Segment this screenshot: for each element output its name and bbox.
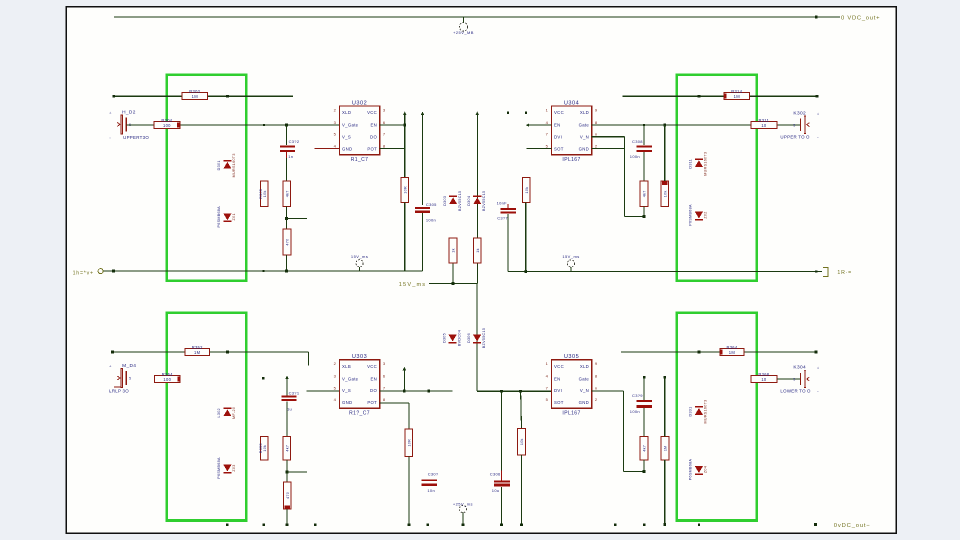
svg-text:MURS160T3: MURS160T3 — [704, 152, 708, 176]
net flag (right rail) — [823, 268, 852, 277]
wire gate to R313 — [664, 125, 666, 181]
wire end dot — [408, 523, 411, 526]
wire U303 DO row — [380, 390, 453, 392]
svg-text:POT: POT — [367, 146, 377, 151]
wire R352 net to corner — [209, 351, 308, 353]
svg-text:DO: DO — [370, 388, 377, 393]
diode D303 zener — [443, 191, 462, 211]
svg-text:4k7: 4k7 — [643, 190, 647, 197]
wire to R307 — [286, 219, 288, 229]
net stub dot bottom rail — [226, 523, 228, 525]
wire R361 to junction — [643, 460, 645, 471]
svg-text:VCC: VCC — [367, 110, 377, 115]
wire U302 POT — [380, 148, 405, 150]
net stub dot — [664, 376, 666, 378]
wire vertical with arrow at C331 column — [285, 376, 289, 380]
svg-text:VCC: VCC — [554, 364, 564, 369]
wire corner down toward U303 — [307, 352, 309, 365]
connector K301 — [110, 109, 150, 140]
svg-text:BZV55C15: BZV55C15 — [458, 191, 462, 211]
svg-text:C30?: C30? — [428, 472, 439, 477]
svg-text:1n: 1n — [288, 154, 293, 159]
capacitor C306 10u — [490, 471, 510, 493]
svg-text:10nF: 10nF — [497, 201, 508, 206]
wire stub right — [287, 471, 307, 473]
resistor R306a 10R — [401, 177, 409, 202]
wire C331 to R357 — [286, 401, 288, 436]
svg-text:MURS160T3: MURS160T3 — [232, 153, 236, 177]
diode D305 zener — [442, 330, 461, 346]
resistor R362 1M — [661, 436, 669, 460]
svg-text:V_Gate: V_Gate — [342, 123, 359, 128]
wire R362 to bottom dot — [664, 460, 666, 524]
diode D301 — [217, 153, 236, 177]
svg-text:100: 100 — [163, 377, 171, 382]
IC U305 driver — [546, 354, 598, 417]
supply symbol +25V_ms bottom — [453, 502, 473, 513]
net stub dot — [643, 376, 645, 378]
svg-text:U303: U303 — [352, 354, 367, 360]
junction dot — [403, 390, 406, 393]
junction dot — [524, 270, 527, 273]
svg-text:10R: 10R — [403, 186, 407, 194]
svg-text:1k: 1k — [476, 248, 480, 253]
net stub dot — [525, 111, 527, 113]
resistor R356 10R — [405, 429, 412, 456]
svg-text:EN: EN — [371, 123, 378, 128]
svg-text:XLD: XLD — [580, 110, 589, 115]
cap C306 top lead — [501, 470, 503, 480]
resistor R313 10k — [661, 181, 669, 206]
wire R368 to K304 — [777, 378, 800, 380]
wire end dot — [816, 95, 819, 98]
svg-text:Gate: Gate — [579, 376, 590, 381]
svg-text:VCC: VCC — [367, 364, 377, 369]
svg-text:SOT: SOT — [554, 400, 564, 405]
svg-text:5: 5 — [129, 377, 131, 381]
junction dot — [226, 351, 229, 354]
wire center column with arrow — [476, 112, 480, 116]
resistor R304 100 — [154, 118, 180, 129]
svg-text:V_S: V_S — [342, 135, 351, 140]
diode D312 — [689, 204, 708, 226]
svg-text:1R·=: 1R·= — [837, 270, 852, 276]
capacitor C312 1n — [280, 139, 300, 159]
resistor R310 10k — [522, 177, 530, 202]
svg-text:10: 10 — [761, 123, 767, 128]
diode D332 — [689, 459, 708, 481]
wire R352 net left segment — [112, 351, 185, 353]
wire C309 to R361 — [643, 408, 645, 437]
junction dot — [643, 470, 646, 473]
wire center column lower — [476, 284, 478, 392]
resistor R358 470 — [283, 482, 291, 509]
wire down to C308 — [643, 125, 645, 145]
net stub dot bottom rail — [614, 523, 616, 525]
capacitor C331 1n — [281, 391, 300, 412]
wire R357 to junction — [286, 460, 288, 472]
svg-text:C3?9: C3?9 — [632, 393, 643, 398]
resistor R355 10k — [259, 436, 268, 460]
net stub dot — [643, 523, 645, 525]
junction on top rail — [815, 16, 818, 19]
svg-text:Z02: Z02 — [704, 211, 708, 218]
net stub dot bottom rail — [427, 523, 429, 525]
svg-text:LOWER TO O: LOWER TO O — [780, 389, 811, 394]
wire end dot — [663, 523, 666, 526]
wire R311 to K302 — [777, 124, 800, 126]
wire R359 to bottom dot — [521, 455, 523, 525]
cap C307 top lead — [507, 204, 509, 208]
svg-text:0vDC_out−: 0vDC_out− — [834, 523, 871, 529]
resistor R357 4k7 — [283, 436, 291, 460]
svg-text:MF-20: MF-20 — [232, 407, 236, 419]
junction dot — [698, 95, 701, 98]
wire U304 V_N — [592, 136, 625, 138]
svg-text:0 VDC_out+: 0 VDC_out+ — [841, 16, 880, 22]
wire K301 to R304 — [127, 124, 155, 126]
svg-text:15V_ms: 15V_ms — [351, 254, 368, 259]
wire down to C309 — [643, 377, 645, 400]
wire U305 V_N — [592, 390, 624, 392]
IC U303 driver — [334, 354, 386, 417]
wire U303 POT — [380, 402, 409, 404]
wire down to C312 — [286, 125, 288, 145]
wire V_N column down — [622, 391, 624, 471]
wire stub to R312 bottom — [624, 216, 644, 218]
svg-text:1M: 1M — [664, 445, 668, 451]
svg-text:10n: 10n — [427, 488, 435, 493]
svg-text:GND: GND — [342, 146, 352, 151]
wire 15V_ms left rail — [103, 270, 423, 272]
junction dot cap branch — [285, 124, 288, 127]
small dot — [263, 270, 265, 272]
svg-text:BZV55C15: BZV55C15 — [482, 328, 486, 348]
wire V_N column down — [623, 137, 625, 217]
diode D302 — [217, 206, 236, 228]
svg-text:+25V_ms: +25V_ms — [453, 502, 473, 507]
capacitor C307 10nF — [497, 201, 516, 221]
svg-text:470: 470 — [286, 239, 290, 246]
connector K302 — [780, 110, 819, 139]
wire R364 net right segment — [744, 351, 816, 353]
wire stub to R361 bottom — [623, 470, 644, 472]
svg-text:n: n — [595, 385, 598, 390]
wire end dot — [113, 95, 115, 97]
highlight rectangle (bottom-right variant area) — [677, 313, 757, 521]
resistor R352 1M — [185, 345, 209, 356]
highlight rectangle (top-left variant area) — [167, 75, 246, 281]
wire U304 SOT — [526, 148, 551, 150]
svg-text:EN: EN — [371, 376, 378, 381]
wire to junction — [286, 206, 288, 218]
IC U304 driver — [546, 100, 598, 163]
wire C312 to R306b — [286, 158, 288, 181]
wire vertical with arrow at R306 column — [403, 112, 407, 116]
svg-text:XLD: XLD — [580, 364, 589, 369]
cap lead — [286, 152, 288, 158]
svg-text:XLD: XLD — [342, 110, 351, 115]
wire C307 to rail — [507, 214, 509, 272]
wire arrow column to C331 — [286, 379, 288, 396]
svg-text:EN: EN — [554, 123, 561, 128]
svg-text:10k: 10k — [525, 187, 529, 194]
wire U304 Gate to R311 — [592, 124, 751, 126]
svg-text:D311: D311 — [689, 159, 693, 169]
svg-text:C305: C305 — [426, 202, 437, 207]
svg-text:L302: L302 — [217, 408, 221, 417]
svg-text:R355: R355 — [259, 443, 263, 453]
svg-text:POT: POT — [367, 400, 377, 405]
svg-text:10: 10 — [761, 377, 767, 382]
diode D322 — [217, 457, 236, 479]
wire stub right — [287, 218, 307, 220]
diode D304 zener — [467, 191, 486, 211]
wire R314 net left segment — [622, 95, 724, 97]
junction dot — [427, 390, 430, 393]
svg-text:4k7: 4k7 — [643, 445, 647, 452]
capacitor C309 100n — [630, 393, 652, 414]
wire 0VDC_out+ top rail — [114, 16, 840, 18]
svg-text:P6SMB68A: P6SMB68A — [689, 459, 693, 481]
svg-text:1k: 1k — [452, 248, 456, 253]
svg-text:D303: D303 — [443, 196, 447, 206]
svg-text:EN: EN — [554, 376, 561, 381]
svg-text:1M: 1M — [192, 94, 199, 99]
wire R356 to bottom dot — [408, 456, 410, 524]
wire into U303 V_S — [307, 390, 340, 392]
net stub dot — [507, 111, 509, 113]
capacitor C305 100n — [415, 202, 437, 222]
svg-text:Gate: Gate — [579, 123, 590, 128]
junction dot — [285, 270, 288, 273]
diode D306 zener — [467, 328, 486, 348]
svg-text:470: 470 — [286, 492, 290, 499]
diode D311 — [689, 152, 708, 176]
svg-text:1M: 1M — [194, 350, 201, 355]
resistor R314 1M — [724, 89, 750, 100]
svg-text:VCC: VCC — [554, 110, 564, 115]
svg-text:GND: GND — [579, 146, 589, 151]
resistor R307 470 — [283, 229, 291, 255]
svg-text:100: 100 — [163, 123, 171, 128]
svg-text:1M: 1M — [734, 94, 741, 99]
wire R358 to bottom dot — [286, 509, 288, 525]
svg-text:GND: GND — [342, 400, 352, 405]
svg-text:U302: U302 — [352, 100, 367, 106]
wire U304 EN with arrow — [526, 123, 530, 127]
svg-text:U305: U305 — [564, 354, 579, 360]
svg-text:GND: GND — [579, 400, 589, 405]
net stub dot — [643, 124, 645, 126]
svg-text:▵: ▵ — [110, 110, 112, 114]
wire end dot — [462, 523, 465, 526]
capacitor C308 100n — [630, 139, 652, 159]
svg-text:UPPER TO O: UPPER TO O — [780, 134, 810, 139]
wire vertical with arrow at C305 column — [421, 112, 425, 116]
wire U302 GND stub — [314, 148, 339, 150]
wire R306a to 15V rail — [404, 203, 406, 272]
wire R304 to U302 V_Gate — [180, 124, 339, 126]
svg-text:BVDC04: BVDC04 — [457, 330, 461, 346]
junction dot — [226, 95, 229, 98]
highlight rectangle (bottom-left variant area) — [167, 313, 246, 521]
wire end dot — [520, 523, 523, 526]
resistor R306 4k7 — [283, 181, 291, 206]
svg-text:D304: D304 — [467, 196, 471, 206]
svg-text:DO: DO — [370, 135, 377, 140]
wire zener branch — [452, 263, 454, 283]
svg-text:5: 5 — [793, 378, 795, 382]
svg-text:BZV55C15: BZV55C15 — [482, 191, 486, 211]
wire to C306 — [501, 391, 503, 470]
wire C305 to 15V rail — [422, 213, 424, 271]
svg-text:U304: U304 — [564, 100, 579, 106]
wire junction to R358 — [286, 472, 288, 482]
svg-text:4k7: 4k7 — [285, 190, 289, 197]
junction dot — [285, 217, 288, 220]
wire arrow column to C305 — [422, 115, 424, 206]
svg-text:UPPERT3O: UPPERT3O — [123, 135, 149, 140]
wire POT column down — [408, 403, 410, 429]
svg-text:DVI: DVI — [554, 388, 562, 393]
connector K303 — [109, 363, 136, 394]
svg-text:100n: 100n — [426, 217, 436, 222]
wire U304 GND — [592, 148, 625, 150]
svg-text:LRLP 3O: LRLP 3O — [109, 389, 129, 394]
svg-text:▵: ▵ — [110, 364, 112, 368]
svg-text:▵: ▵ — [817, 111, 819, 115]
connector K303 stub — [114, 386, 121, 388]
svg-text:4k7: 4k7 — [285, 445, 289, 452]
resistor R312 4k7 — [640, 181, 648, 206]
svg-text:P6SMB68A: P6SMB68A — [217, 457, 221, 479]
svg-text:V_N: V_N — [580, 388, 589, 393]
supply symbol 15V_ms left rail — [351, 254, 368, 271]
svg-text:C306: C306 — [490, 471, 501, 476]
diode D321 — [217, 407, 236, 419]
svg-text:15V_ms: 15V_ms — [399, 282, 426, 288]
small dot — [815, 270, 817, 272]
svg-text:D301: D301 — [217, 160, 221, 170]
wire R310 to rail — [525, 203, 527, 272]
resistor R311 10 — [751, 118, 777, 129]
wire R302 net right segment — [208, 95, 293, 97]
net stub dot bottom rail — [314, 523, 316, 525]
svg-text:IPL167: IPL167 — [562, 411, 580, 417]
supply symbol +25V_MB on top rail — [453, 23, 474, 35]
svg-text:D331: D331 — [689, 406, 693, 416]
svg-text:R1?_C7: R1?_C7 — [349, 411, 370, 417]
resistor R361 4k7 — [640, 436, 648, 460]
svg-text:100n: 100n — [630, 154, 640, 159]
wire R302 net left segment — [114, 95, 182, 97]
wire stub to R362 — [664, 377, 666, 436]
wire R312 to junction — [643, 206, 645, 216]
svg-text:▵: ▵ — [817, 366, 819, 370]
junction dot — [112, 270, 115, 273]
svg-text:V_N: V_N — [580, 135, 589, 140]
svg-text:10k: 10k — [263, 190, 267, 197]
net stub dot bottom rail — [262, 523, 264, 525]
wire end dot — [815, 351, 818, 354]
junction dot — [452, 282, 455, 285]
junction dot — [663, 124, 666, 127]
wire center to U305 — [477, 390, 551, 392]
wire arrow column to R306 — [404, 115, 406, 178]
wire vertical arrow riser at U303 right — [403, 367, 407, 371]
wire end dot — [500, 523, 503, 526]
svg-text:10k: 10k — [520, 438, 524, 445]
svg-text:10R: 10R — [408, 439, 412, 447]
svg-text:H_D2: H_D2 — [122, 109, 136, 115]
wire center column — [476, 115, 478, 284]
svg-text:10k: 10k — [263, 445, 267, 452]
svg-text:C3?2: C3?2 — [289, 139, 300, 144]
svg-text:100n: 100n — [630, 409, 640, 414]
wire 15V_ms to center column — [429, 283, 477, 285]
svg-text:MURS160T3: MURS160T3 — [704, 399, 708, 423]
wire U304 EN — [529, 124, 552, 126]
svg-text:Z01: Z01 — [232, 213, 236, 220]
junction dot — [519, 390, 522, 393]
wire end dot — [111, 351, 114, 354]
wire riser to row wire — [403, 370, 405, 391]
svg-text:K304: K304 — [793, 365, 806, 371]
junction dot — [500, 390, 503, 393]
svg-text:5: 5 — [793, 123, 795, 127]
diode D331 — [689, 399, 708, 423]
svg-text:R1_C7: R1_C7 — [351, 157, 369, 163]
svg-text:IPL167: IPL167 — [562, 157, 580, 163]
resistor R305 10k — [259, 181, 268, 206]
wire C308 to R312 — [643, 152, 645, 181]
svg-text:10k: 10k — [663, 190, 667, 197]
resistor R302 1M — [182, 89, 208, 100]
resistor R308 1k — [449, 238, 457, 263]
svg-text:XLB: XLB — [342, 364, 351, 369]
svg-text:P6SMB68A: P6SMB68A — [689, 204, 693, 226]
junction dot — [286, 471, 289, 474]
svg-text:C3?7: C3?7 — [497, 216, 508, 221]
resistor R359 10k — [518, 429, 526, 455]
junction dot — [698, 351, 701, 354]
connector K304 — [780, 365, 819, 394]
resistor R309 1k — [473, 238, 481, 263]
wire U302 EN — [380, 124, 405, 126]
wire C306 to bottom dot — [501, 487, 503, 525]
wire 15V_ms right rail — [508, 270, 822, 272]
net flag 15V-ms+ (left) — [73, 269, 104, 277]
svg-text:V_Gate: V_Gate — [342, 376, 359, 381]
wire to R359 — [520, 391, 523, 428]
svg-text:D306: D306 — [467, 333, 471, 343]
wire supply tick — [463, 17, 465, 22]
wire supply to bottom dot — [462, 513, 464, 525]
IC U302 driver — [334, 100, 386, 163]
svg-text:C308: C308 — [632, 139, 643, 144]
wire end dot — [286, 523, 289, 526]
svg-text:1h=*v+: 1h=*v+ — [73, 270, 94, 276]
resistor R364 1M — [720, 345, 744, 356]
wire R307 to 15V rail — [286, 255, 288, 271]
svg-text:Z03: Z03 — [232, 464, 236, 471]
svg-text:P6SMB68A: P6SMB68A — [217, 206, 221, 228]
svg-text:DVI: DVI — [554, 135, 562, 140]
net stub dot — [262, 377, 264, 379]
svg-text:C3?1: C3?1 — [289, 391, 300, 396]
svg-text:M_D4: M_D4 — [122, 363, 136, 369]
